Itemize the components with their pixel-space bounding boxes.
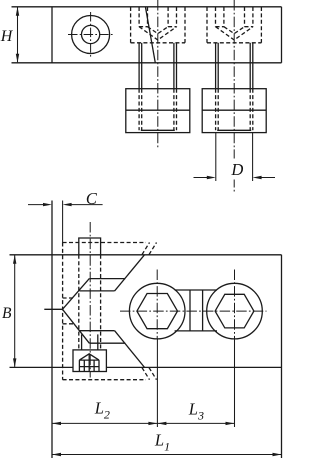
hole inner circle <box>82 25 100 43</box>
upper chamfer band bottom <box>79 290 114 292</box>
plate left edge with extension <box>51 201 53 459</box>
dimension D extension line left <box>215 133 217 181</box>
nut 1 mid line <box>126 109 190 111</box>
hole centerline vertical <box>90 12 92 57</box>
dimension L2 arrowhead left <box>52 422 61 425</box>
nut 1 body <box>126 89 190 133</box>
nut 1 hidden thread lines <box>139 89 176 131</box>
bolt 2 centerline lower part <box>233 180 235 192</box>
screw head 2 circle <box>207 283 263 339</box>
pocket 2 hidden outline (counterbore) <box>207 7 261 43</box>
dimension L2 arrowhead right <box>148 422 157 425</box>
body left edge <box>51 7 53 63</box>
clamp screw hidden hole lines <box>79 255 101 350</box>
V-block hidden outline top <box>63 242 146 244</box>
dimension L2 line <box>52 422 157 424</box>
svg-text:L3: L3 <box>188 400 204 423</box>
body bottom edge <box>12 62 282 64</box>
screw head 2 hexagon <box>215 294 254 328</box>
upper chamfer band top <box>89 278 125 280</box>
V-block hidden chamfer bottom <box>142 368 150 380</box>
screw head 1 centerline vertical <box>156 270 158 340</box>
hole centerline horizontal <box>68 34 114 36</box>
clamp screw shank in slot <box>81 334 83 350</box>
bolt 1 shank lines <box>138 43 140 89</box>
body right edge <box>281 7 283 63</box>
dimension L3 line <box>157 422 234 424</box>
dimension L1 arrowhead left <box>52 453 61 456</box>
svg-text:C: C <box>86 189 98 208</box>
bolt 2 shank lines <box>215 43 217 89</box>
svg-text:H: H <box>0 28 14 45</box>
slot edge top <box>175 289 217 291</box>
dimension D line left segment <box>194 177 211 179</box>
screw 2 end line <box>217 129 251 131</box>
clamp screw centerline <box>89 222 91 378</box>
plate right edge with extension <box>281 255 283 458</box>
dimension D extension line right <box>252 133 254 181</box>
plate bottom edge <box>10 366 74 368</box>
screw head 2 centerline vertical <box>234 270 236 340</box>
hole outer circle <box>72 16 110 54</box>
knurled knob body <box>73 350 106 372</box>
L2 extension line (screw 1 axis) <box>156 339 158 427</box>
plate top edge <box>10 254 282 256</box>
svg-text:D: D <box>230 160 243 179</box>
upper vee edge to plate top <box>115 255 145 291</box>
slot inner vertical right <box>202 290 204 331</box>
screw head 1 circle <box>129 283 185 339</box>
dimension C line left segment <box>28 204 46 206</box>
clamp screw tip boss <box>79 238 101 255</box>
lower chamfer band bottom <box>89 342 125 344</box>
dimension L1 arrowhead right <box>273 453 282 456</box>
nut 2 hidden thread lines <box>216 89 253 131</box>
V-block hidden chamfer top <box>142 243 150 255</box>
V-block hidden outline bottom <box>63 379 146 381</box>
slant line on body <box>145 7 155 63</box>
dimension B arrowhead bottom <box>13 358 16 367</box>
svg-text:L2: L2 <box>94 399 110 422</box>
dimension H arrowhead top <box>16 7 19 16</box>
svg-text:L1: L1 <box>154 431 170 454</box>
dimension L3 arrowhead left <box>157 422 166 425</box>
knurled knob grid horizontals <box>79 359 99 361</box>
dimension H line <box>17 7 19 62</box>
slot edge bottom <box>175 330 217 332</box>
bolt 1 centerline <box>157 0 159 148</box>
main horizontal centerline <box>120 310 267 312</box>
nut 2 mid line <box>202 109 266 111</box>
body top edge <box>12 6 282 8</box>
knurled knob cone roof <box>79 354 99 360</box>
V-block hidden outline left <box>62 243 64 380</box>
dimension H arrowhead bottom <box>16 54 19 63</box>
dimension D arrowhead right <box>253 176 262 179</box>
screw head 1 hexagon <box>137 294 178 329</box>
pocket 1 hidden outline (counterbore) <box>131 7 185 43</box>
L3 extension line (screw 2 axis) <box>234 339 236 427</box>
svg-text:B: B <box>2 305 12 322</box>
dimension C arrowhead left <box>43 203 52 206</box>
V notch upper face <box>63 279 90 310</box>
dimension B line <box>14 255 16 367</box>
nut 2 body <box>202 89 266 133</box>
dimension B arrowhead top <box>13 255 16 264</box>
dimension D arrowhead left <box>207 176 216 179</box>
lower vee edge to plate bottom <box>115 331 145 368</box>
bolt 2 centerline <box>233 0 235 159</box>
plate bottom edge right part <box>106 366 281 368</box>
dimension C extension line right <box>62 201 64 243</box>
screw 1 end line <box>141 129 175 131</box>
lower chamfer band top <box>79 330 114 332</box>
slot inner vertical left <box>189 290 191 331</box>
dimension C line right segment <box>69 204 103 206</box>
V notch apex flat <box>44 308 62 310</box>
dimension L3 arrowhead right <box>226 422 235 425</box>
knurled knob grid verticals <box>78 360 80 371</box>
dimension D line right segment <box>258 177 275 179</box>
hidden slot stubs left <box>63 297 74 299</box>
V notch lower face <box>63 309 90 343</box>
dimension C arrowhead right <box>63 203 72 206</box>
dimension L1 line <box>52 454 282 456</box>
